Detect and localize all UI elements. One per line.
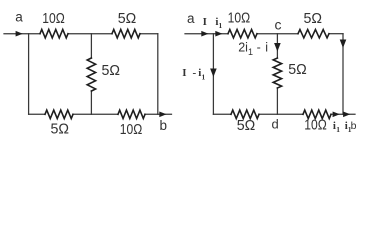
svg-text:5Ω: 5Ω (237, 117, 256, 134)
svg-text:10Ω: 10Ω (120, 121, 143, 138)
svg-text:10Ω: 10Ω (42, 10, 65, 27)
svg-text:I: I (182, 67, 186, 79)
svg-text:b: b (159, 118, 167, 133)
svg-text:2i: 2i (238, 41, 248, 55)
svg-text:5Ω: 5Ω (288, 61, 307, 78)
svg-text:I: I (203, 16, 207, 28)
svg-text:-: - (257, 41, 261, 55)
svg-text:1: 1 (336, 125, 340, 134)
svg-text:i: i (265, 41, 268, 55)
svg-text:10Ω: 10Ω (228, 10, 251, 27)
svg-text:5Ω: 5Ω (304, 10, 323, 27)
svg-text:1: 1 (248, 47, 253, 57)
svg-text:b: b (351, 120, 357, 132)
svg-text:-: - (193, 67, 197, 79)
svg-text:1: 1 (202, 73, 206, 82)
svg-text:5Ω: 5Ω (102, 62, 121, 79)
svg-text:a: a (187, 11, 195, 26)
svg-text:c: c (275, 17, 282, 33)
svg-text:5Ω: 5Ω (51, 121, 70, 138)
svg-text:10Ω: 10Ω (304, 117, 327, 134)
svg-text:5Ω: 5Ω (118, 10, 137, 27)
svg-text:1: 1 (219, 21, 223, 30)
svg-text:a: a (15, 10, 23, 25)
svg-text:d: d (271, 116, 278, 131)
